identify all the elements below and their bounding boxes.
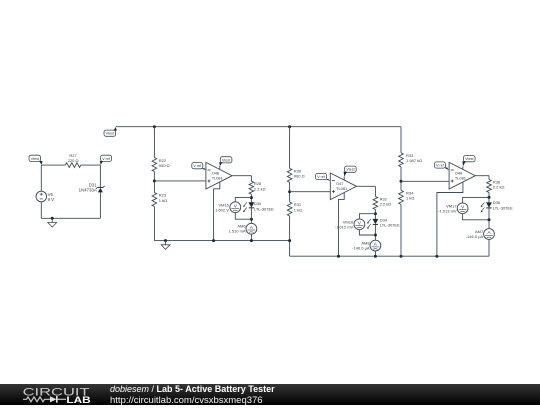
wire stage1 divider lower — [153, 207, 155, 241]
resistor R32 — [373, 197, 378, 210]
wire LED D34 to ammeter — [374, 225, 376, 241]
wire stage1 bottom rail — [154, 240, 289, 242]
svg-text:V ref: V ref — [436, 164, 445, 168]
svg-text:V ref: V ref — [317, 175, 326, 179]
resistor R22 — [152, 158, 157, 172]
wire stage2 divider upper — [289, 127, 291, 169]
voltmeter VM16 branch — [359, 214, 375, 235]
junction rail / op-amp2 V- — [337, 255, 340, 258]
svg-text:2.2 kΩ: 2.2 kΩ — [493, 184, 505, 189]
node label Vtest (op-amp1 V+) — [220, 157, 232, 163]
wire ammeter AM6 to rail — [250, 234, 252, 241]
resistor R30 — [287, 168, 292, 182]
wire battery bottom — [41, 217, 100, 219]
LED D30 — [249, 203, 254, 208]
svg-text:9 V: 9 V — [48, 197, 55, 202]
junction rail / op-amp3 V- — [435, 255, 438, 258]
junction stage3 bracket top — [488, 196, 491, 199]
node label Vtest (top rail) — [104, 130, 116, 136]
svg-text:-146.0 µA: -146.0 µA — [466, 234, 484, 239]
node label V ref (op-amp2 inverting input) — [316, 173, 327, 179]
resistor R28 — [249, 181, 254, 194]
LED D34 — [373, 219, 378, 224]
svg-text:1N4733A: 1N4733A — [79, 188, 97, 193]
svg-text:1 kΩ: 1 kΩ — [406, 196, 414, 201]
voltmeter VM15 branch — [235, 198, 251, 220]
svg-text:1 kΩ: 1 kΩ — [159, 198, 167, 203]
wire battery left lower — [40, 202, 42, 219]
op-amp O47 V- pin step — [339, 193, 345, 256]
op-amp O47 (op-amp stage2) — [330, 173, 356, 200]
zener diode D31 — [98, 186, 104, 188]
svg-text:LAB: LAB — [66, 394, 90, 405]
voltage source V6 — [36, 191, 47, 202]
svg-text:1.602 V: 1.602 V — [215, 207, 229, 212]
svg-text:2.2 kΩ: 2.2 kΩ — [380, 201, 392, 206]
svg-text:TL081: TL081 — [336, 186, 347, 191]
voltmeter VM16 meter — [354, 219, 365, 230]
svg-text:Vtest: Vtest — [106, 132, 114, 136]
node label Vtest (battery top-left) — [29, 155, 41, 161]
svg-text:1.987 kΩ: 1.987 kΩ — [406, 158, 422, 163]
svg-text:V ref: V ref — [193, 164, 202, 168]
junction stage2 divider tap — [288, 190, 291, 193]
svg-text:-1.013 mV: -1.013 mV — [438, 208, 457, 213]
wire battery top-left segment — [41, 164, 65, 166]
wire ammeter AM8 to rail — [374, 251, 376, 256]
svg-text:LTL-307EE: LTL-307EE — [380, 222, 400, 227]
resistor R31 — [287, 202, 292, 216]
node label V ref (op-amp1 inverting input) — [192, 163, 203, 169]
wire stage2 divider mid — [289, 182, 291, 202]
voltmeter VM17 branch — [463, 197, 489, 219]
wire R32 to LED D34 — [374, 210, 376, 220]
wire R36 to LED D36 — [488, 193, 490, 203]
junction rail / ammeter AM8 — [374, 255, 377, 258]
node label V ref (op-amp3 inverting input) — [434, 162, 445, 168]
wire top Vtest rail — [116, 126, 401, 128]
wire stage2 tap to op-amp + — [290, 191, 331, 193]
wire zener top — [99, 165, 101, 187]
wire to R36 — [488, 176, 490, 180]
svg-text:Vtest: Vtest — [465, 157, 473, 161]
ground stage1 ground — [165, 241, 167, 245]
junction stage3 divider tap — [400, 180, 403, 183]
resistor R34 — [399, 190, 404, 204]
svg-text:-1.012 mV: -1.012 mV — [335, 224, 354, 229]
wire stage2-3 bottom rail — [290, 255, 489, 257]
wire stage3 tap to op-amp + — [401, 180, 449, 182]
resistor R23 — [152, 193, 157, 207]
wire LED D30 to ammeter — [250, 208, 252, 223]
op-amp O48 (op-amp stage3) — [449, 162, 475, 189]
wire battery left upper — [40, 165, 42, 191]
svg-text:TL081: TL081 — [212, 176, 223, 181]
svg-text:LTL-307EE: LTL-307EE — [254, 206, 274, 211]
junction top rail / stage1 divider — [153, 125, 156, 128]
wire LED D36 to ammeter — [488, 208, 490, 228]
svg-text:LTL-307EE: LTL-307EE — [493, 205, 513, 210]
junction rail / stage3 divider — [400, 255, 403, 258]
ground battery ground — [51, 218, 53, 222]
op-amp O47 V+ pin stub — [343, 177, 345, 181]
ammeter AM6 meter — [246, 223, 257, 234]
wire op-amp2 output horizontal — [357, 185, 376, 187]
svg-text:V ref: V ref — [102, 157, 111, 161]
svg-text:900 Ω: 900 Ω — [159, 163, 170, 168]
node label Vtest (op-amp2 V+) — [345, 166, 357, 172]
op-amp O46 V- pin step — [214, 182, 220, 240]
voltmeter VM15 meter — [230, 202, 241, 213]
op-amp O46 (op-amp stage1) — [206, 162, 232, 189]
svg-text:Vtest: Vtest — [31, 157, 39, 161]
wire to R28 — [250, 176, 252, 182]
CircuitLab logo resistor-diode squiggle — [23, 397, 50, 402]
wire stage3 divider lower — [400, 204, 402, 256]
svg-text:Vtest: Vtest — [346, 168, 354, 172]
svg-text:1 kΩ: 1 kΩ — [294, 207, 302, 212]
svg-text:900 Ω: 900 Ω — [294, 174, 305, 179]
wire op-amp3 output horizontal — [475, 175, 489, 177]
resistor R36 — [487, 180, 492, 193]
op-amp O48 V- pin step — [437, 182, 463, 256]
junction rail / op-amp1 V- — [212, 239, 215, 242]
junction stage1 rail tee — [288, 239, 291, 242]
wire stage3 divider mid — [400, 167, 402, 191]
resistor R27 — [65, 163, 80, 168]
svg-text:1.510 mA: 1.510 mA — [228, 229, 245, 234]
junction stage2 bracket bottom — [374, 234, 377, 237]
junction stage1 bracket top — [250, 196, 253, 199]
LED D36 — [486, 203, 491, 208]
wire zener bottom — [99, 192, 101, 218]
ammeter AM7 meter — [484, 229, 495, 240]
wire R28 to LED D30 — [250, 194, 252, 202]
junction stage1 bracket bottom — [250, 218, 253, 221]
wire stage1 divider upper — [153, 127, 155, 158]
junction rail / ammeter AM6 — [250, 239, 253, 242]
wire stage1 divider mid — [153, 172, 155, 193]
junction top rail / stage2 divider — [288, 125, 291, 128]
svg-text:TL081: TL081 — [455, 176, 466, 181]
junction stage2 bracket top — [374, 212, 377, 215]
junction stage1 divider tap — [153, 179, 156, 182]
wire stage3 divider upper — [400, 127, 402, 153]
wire stage1 tap to op-amp + — [154, 180, 206, 182]
wire stage2 divider lower — [289, 216, 291, 256]
op-amp O46 V+ pin stub — [219, 166, 221, 170]
junction stage3 bracket bottom — [488, 218, 491, 221]
svg-text:-146.0 µA: -146.0 µA — [352, 246, 370, 251]
wire to R32 — [374, 186, 376, 196]
junction battery-ground — [51, 217, 54, 220]
node label V ref (battery top-right) — [101, 155, 112, 161]
svg-text:220 Ω: 220 Ω — [68, 158, 79, 163]
resistor R33 — [399, 153, 404, 167]
wire battery top-right segment — [81, 164, 101, 166]
wire op-amp1 output horizontal — [232, 175, 251, 177]
junction rail-ground — [164, 239, 167, 242]
ammeter AM8 meter — [370, 240, 381, 251]
svg-text:Vtest: Vtest — [222, 158, 230, 162]
voltmeter VM17 meter — [457, 203, 468, 214]
svg-text:2.2 kΩ: 2.2 kΩ — [254, 186, 266, 191]
wire ammeter AM7 to rail — [488, 239, 490, 256]
node label Vtest (op-amp3 V+) — [464, 156, 476, 162]
op-amp O48 V+ pin stub — [462, 166, 464, 169]
